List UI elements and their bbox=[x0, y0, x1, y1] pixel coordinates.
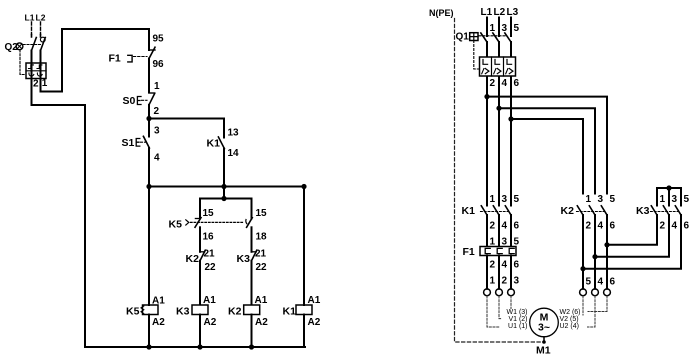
wire bus L2 to K2 terminal3 bbox=[499, 108, 595, 193]
svg-text:K5: K5 bbox=[126, 306, 140, 318]
cable core4 to U2 dashed bbox=[588, 296, 596, 327]
svg-text:V1 (2): V1 (2) bbox=[508, 316, 527, 323]
svg-text:K3: K3 bbox=[636, 205, 650, 217]
terminal 2 (K2) bbox=[586, 221, 592, 232]
terminal 6 (Q1) bbox=[514, 78, 520, 89]
terminal 3 (S1) bbox=[154, 126, 160, 137]
terminal 1 (K2) bbox=[586, 194, 592, 205]
svg-text:4: 4 bbox=[672, 221, 678, 232]
cable core1 to U1 dashed bbox=[487, 296, 500, 327]
wire phase L2 to K1 bbox=[498, 108, 500, 205]
pushbutton S0 1-2 (NC stop) bbox=[123, 93, 155, 119]
core 1 label bbox=[490, 276, 496, 287]
coil K2 bbox=[228, 305, 260, 318]
svg-text:L1: L1 bbox=[481, 7, 493, 18]
terminal 5 (K3) bbox=[684, 194, 690, 205]
terminal circle core5 bbox=[580, 289, 587, 296]
terminal 21 right bbox=[255, 249, 267, 260]
svg-text:A1: A1 bbox=[308, 295, 321, 306]
svg-text:4: 4 bbox=[502, 260, 508, 271]
wire K3 coil to rail bbox=[199, 315, 201, 348]
terminal 14 bbox=[228, 148, 240, 159]
cable core6 to W2 dashed bbox=[588, 296, 607, 312]
wire node2 branch to K1 aux bbox=[149, 119, 224, 138]
terminal 2 (S0) bbox=[154, 106, 160, 117]
node junction riser/split bbox=[221, 196, 226, 201]
cable core2 to V1 dashed bbox=[499, 296, 501, 319]
svg-text:2: 2 bbox=[490, 221, 496, 232]
terminal 4 (Q1) bbox=[502, 78, 508, 89]
wire bus to K5 coil bbox=[148, 187, 150, 306]
svg-text:4: 4 bbox=[154, 153, 160, 164]
terminal 21 left bbox=[204, 249, 216, 260]
svg-text:22: 22 bbox=[205, 262, 217, 273]
wire K2 drops to terminals bbox=[583, 245, 607, 289]
motor terminal U1(1) bbox=[508, 323, 527, 330]
terminal 3 (K3) bbox=[672, 194, 678, 205]
svg-text:5: 5 bbox=[514, 23, 520, 34]
terminal 1 (S0) bbox=[154, 81, 160, 92]
svg-text:22: 22 bbox=[256, 262, 268, 273]
svg-text:6: 6 bbox=[514, 221, 520, 232]
svg-text:3: 3 bbox=[514, 276, 520, 287]
terminal 2 (K1) bbox=[490, 221, 496, 232]
svg-text:4: 4 bbox=[502, 78, 508, 89]
svg-text:6: 6 bbox=[610, 277, 616, 288]
wire L3 drop bbox=[510, 18, 512, 37]
svg-text:4: 4 bbox=[598, 277, 604, 288]
svg-text:K3: K3 bbox=[176, 306, 190, 318]
core 4 label bbox=[598, 277, 604, 288]
node junction K3/rail bbox=[197, 344, 202, 349]
terminal circle core2 bbox=[496, 289, 503, 296]
terminal 6 (F1) bbox=[514, 260, 520, 271]
terminal 4 (F1) bbox=[502, 260, 508, 271]
terminal 1 (Q1) bbox=[490, 23, 496, 34]
overload relay F1 bbox=[463, 246, 517, 289]
svg-text:1: 1 bbox=[490, 276, 496, 287]
motor terminal V2(5) bbox=[560, 316, 579, 323]
svg-text:F1: F1 bbox=[109, 53, 121, 65]
node junction K2-4 bbox=[592, 254, 597, 259]
wire K2 pole1 down bbox=[582, 215, 584, 269]
wire K5 split bar bbox=[200, 198, 252, 200]
svg-text:14: 14 bbox=[228, 148, 240, 159]
svg-text:4: 4 bbox=[502, 221, 508, 232]
wire L2 feeder dashed bbox=[40, 22, 42, 35]
svg-text:M1: M1 bbox=[536, 345, 551, 357]
terminal A1 (K5) bbox=[152, 296, 165, 307]
contact K5 15-16 (timed opening) bbox=[195, 199, 201, 252]
node junction K2/rail bbox=[249, 344, 254, 349]
svg-text:3: 3 bbox=[672, 194, 678, 205]
wire L1 feeder dashed bbox=[31, 22, 33, 35]
svg-text:F1: F1 bbox=[463, 246, 475, 258]
svg-text:K5: K5 bbox=[169, 219, 183, 231]
breaker Q1 trip box bbox=[480, 57, 516, 76]
svg-text:W2 (6): W2 (6) bbox=[560, 309, 581, 316]
contact K5 15-18 (timed closing) bbox=[246, 199, 252, 252]
terminal A2 (K2) bbox=[255, 317, 268, 328]
svg-text:K1: K1 bbox=[283, 306, 297, 318]
motor terminal U2(4) bbox=[560, 323, 579, 330]
svg-text:3: 3 bbox=[502, 194, 508, 205]
terminal 6 (K1) bbox=[514, 221, 520, 232]
terminal 2 (Q2) bbox=[33, 79, 39, 90]
contact K1 13-14 (NO aux, seal-in) bbox=[207, 137, 225, 187]
motor terminal W1(3) bbox=[507, 309, 528, 316]
node junction bridge bbox=[666, 185, 671, 190]
svg-text:95: 95 bbox=[153, 34, 165, 45]
svg-text:2: 2 bbox=[490, 78, 496, 89]
contact K3 21-22 (NC interlock) bbox=[237, 250, 257, 305]
svg-text:A1: A1 bbox=[255, 295, 268, 306]
wire phase L1 to K1 bbox=[486, 97, 488, 206]
contactor K3 (star) bbox=[636, 205, 681, 217]
node junction K5/rail bbox=[146, 344, 151, 349]
terminal 22 right bbox=[256, 262, 268, 273]
svg-text:2: 2 bbox=[502, 276, 508, 287]
contactor K1 (main) bbox=[462, 205, 512, 247]
core 6 label bbox=[610, 277, 616, 288]
svg-text:4: 4 bbox=[598, 221, 604, 232]
wire bus L3 to K2 terminal1 bbox=[511, 119, 583, 194]
svg-text:2: 2 bbox=[660, 221, 666, 232]
svg-text:K2: K2 bbox=[228, 306, 242, 318]
terminal 95 bbox=[153, 34, 165, 45]
terminal 4 (S1) bbox=[154, 153, 160, 164]
node L3 (power) bbox=[507, 7, 519, 18]
breaker Q2 bbox=[5, 35, 46, 75]
terminal 2 (Q1) bbox=[490, 78, 496, 89]
terminal 3 (Q1) bbox=[502, 23, 508, 34]
svg-text:K1: K1 bbox=[207, 138, 221, 150]
svg-text:L2: L2 bbox=[36, 13, 46, 23]
svg-text:A1: A1 bbox=[203, 295, 216, 306]
contact K2 21-22 (NC interlock) bbox=[186, 250, 206, 305]
node junction K1coil/bus bbox=[301, 184, 306, 189]
terminal 13 bbox=[228, 128, 240, 139]
terminal 18 bbox=[256, 232, 268, 243]
pushbutton S1 3-4 (NO start) bbox=[122, 136, 150, 186]
terminal 15 left bbox=[203, 208, 215, 219]
breaker Q2 trip box bbox=[26, 63, 46, 79]
svg-text:6: 6 bbox=[684, 221, 690, 232]
terminal A2 (K3) bbox=[204, 317, 217, 328]
terminal 1 (K3) bbox=[660, 194, 666, 205]
svg-text:Q1: Q1 bbox=[456, 32, 470, 43]
svg-text:15: 15 bbox=[203, 208, 215, 219]
wire K2 coil to rail bbox=[251, 315, 253, 348]
wire K3 pole3 to K2 pole1 bbox=[583, 215, 681, 269]
svg-text:6: 6 bbox=[514, 78, 520, 89]
wire K1 coil column bbox=[303, 187, 305, 348]
node N(PE) label bbox=[429, 8, 454, 18]
wire bottom rail (control) bbox=[85, 346, 305, 348]
terminal 15 right bbox=[256, 208, 268, 219]
terminal 3 (K2) bbox=[598, 194, 604, 205]
contactor K2 (delta) bbox=[561, 205, 608, 217]
node M1 label bbox=[536, 345, 551, 357]
wire K2 pole2 down bbox=[594, 215, 596, 257]
terminal 3 (K1) bbox=[502, 194, 508, 205]
terminal A1 (K1) bbox=[308, 295, 321, 306]
svg-text:5: 5 bbox=[610, 194, 616, 205]
terminal 5 (K2) bbox=[610, 194, 616, 205]
terminal 5 (Q1) bbox=[514, 23, 520, 34]
svg-text:N(PE): N(PE) bbox=[429, 8, 454, 18]
wire Q2 pole2 to left rail bbox=[32, 51, 86, 348]
coil K3 bbox=[176, 305, 208, 318]
svg-text:1: 1 bbox=[660, 194, 666, 205]
svg-text:1: 1 bbox=[586, 194, 592, 205]
cable core3 to W1 dashed bbox=[510, 296, 512, 309]
terminal 16 bbox=[203, 232, 215, 243]
svg-text:L1: L1 bbox=[25, 13, 35, 23]
wire bus L1 to K2 terminal5 bbox=[487, 97, 607, 194]
svg-text:L3: L3 bbox=[507, 7, 519, 18]
svg-text:U2 (4): U2 (4) bbox=[560, 323, 579, 330]
wire N(PE) dashed bbox=[455, 19, 545, 343]
relay K5 label and linkage bbox=[169, 219, 245, 231]
svg-text:K2: K2 bbox=[561, 205, 575, 217]
terminal 5 (K1) bbox=[514, 194, 520, 205]
svg-text:K2: K2 bbox=[186, 253, 200, 265]
terminal A1 (K3) bbox=[203, 295, 216, 306]
svg-text:2: 2 bbox=[154, 106, 160, 117]
svg-text:K1: K1 bbox=[462, 205, 476, 217]
svg-text:18: 18 bbox=[256, 232, 268, 243]
wire L2 drop bbox=[498, 18, 500, 37]
wire K5 coil to rail bbox=[148, 315, 150, 348]
terminal 4 (K3) bbox=[672, 221, 678, 232]
terminal 3 (F1) bbox=[502, 237, 508, 248]
svg-text:W1 (3): W1 (3) bbox=[507, 309, 528, 316]
terminal 6 (K3) bbox=[684, 221, 690, 232]
node L2 (control feed label) bbox=[36, 13, 46, 23]
wire K5 changeover riser bbox=[223, 187, 225, 199]
wire L1 drop bbox=[486, 18, 488, 37]
wire motor PE stub bbox=[543, 337, 545, 342]
svg-text:S1: S1 bbox=[122, 137, 135, 149]
motor terminal W2(6) bbox=[560, 309, 581, 316]
wire phase L3 to K1 bbox=[510, 119, 512, 206]
breaker Q1 bbox=[456, 32, 512, 120]
svg-text:1: 1 bbox=[490, 194, 496, 205]
svg-text:A1: A1 bbox=[152, 296, 165, 307]
svg-text:5: 5 bbox=[684, 194, 690, 205]
svg-text:1: 1 bbox=[154, 81, 160, 92]
terminal circle core3 bbox=[508, 289, 515, 296]
terminal 5 (F1) bbox=[514, 237, 520, 248]
node L1 (control feed label) bbox=[25, 13, 35, 23]
terminal A2 (K5) bbox=[152, 317, 165, 328]
core 2 label bbox=[502, 276, 508, 287]
node L1 (power) bbox=[481, 7, 493, 18]
svg-text:3: 3 bbox=[154, 126, 160, 137]
motor terminal V1(2) bbox=[508, 316, 527, 323]
svg-text:96: 96 bbox=[153, 59, 165, 70]
node junction L3/bus bbox=[508, 116, 513, 121]
wire node2 down to S1 bbox=[148, 119, 150, 137]
svg-text:U1 (1): U1 (1) bbox=[508, 323, 527, 330]
terminal circle core1 bbox=[484, 289, 491, 296]
terminal A1 (K2) bbox=[255, 295, 268, 306]
svg-text:S0: S0 bbox=[123, 95, 136, 107]
svg-text:5: 5 bbox=[586, 277, 592, 288]
svg-text:5: 5 bbox=[514, 194, 520, 205]
node junction motor/PE bbox=[542, 340, 546, 344]
node junction S1/bus bbox=[146, 184, 151, 189]
svg-text:K3: K3 bbox=[237, 253, 251, 265]
terminal 4 (K1) bbox=[502, 221, 508, 232]
wire star bridge K3 bbox=[657, 188, 681, 206]
core 3 label bbox=[514, 276, 520, 287]
wire K3 pole1 to K2 pole3 bbox=[607, 215, 657, 245]
wire lower bus bbox=[149, 186, 304, 188]
svg-text:13: 13 bbox=[228, 128, 240, 139]
terminal 2 (K3) bbox=[660, 221, 666, 232]
coil K1 bbox=[283, 305, 313, 318]
svg-text:2: 2 bbox=[490, 260, 496, 271]
terminal 6 (K2) bbox=[610, 221, 616, 232]
node junction L1/bus bbox=[484, 94, 489, 99]
svg-text:A2: A2 bbox=[308, 317, 321, 328]
terminal 1 (F1) bbox=[490, 237, 496, 248]
terminal 1 (K1) bbox=[490, 194, 496, 205]
core 5 label bbox=[586, 277, 592, 288]
svg-text:3~: 3~ bbox=[538, 322, 550, 334]
svg-text:2: 2 bbox=[586, 221, 592, 232]
terminal 1 (Q2) bbox=[42, 78, 48, 89]
node junction L2/bus bbox=[496, 106, 501, 111]
motor M1 bbox=[530, 308, 559, 337]
contact F1 95-96 (NC overload) bbox=[109, 29, 156, 93]
wire K2 pole3 down bbox=[606, 215, 608, 245]
coil K5 (timer) bbox=[126, 305, 158, 318]
svg-text:1: 1 bbox=[42, 78, 48, 89]
svg-text:3: 3 bbox=[598, 194, 604, 205]
node L2 (power) bbox=[494, 7, 506, 18]
svg-text:L2: L2 bbox=[494, 7, 506, 18]
svg-text:A2: A2 bbox=[204, 317, 217, 328]
terminal circle core4 bbox=[592, 289, 599, 296]
cable core5 to V2 dashed bbox=[582, 296, 584, 315]
terminal 22 left bbox=[205, 262, 217, 273]
node junction K2-2 bbox=[580, 266, 585, 271]
terminal 2 (F1) bbox=[490, 260, 496, 271]
terminal A2 (K1) bbox=[308, 317, 321, 328]
node junction K1aux/bus bbox=[221, 184, 226, 189]
node 2 junction bbox=[146, 116, 151, 121]
svg-text:15: 15 bbox=[256, 208, 268, 219]
svg-text:6: 6 bbox=[514, 260, 520, 271]
svg-text:A2: A2 bbox=[152, 317, 165, 328]
svg-text:16: 16 bbox=[203, 232, 215, 243]
node junction K2-6 bbox=[604, 242, 609, 247]
wire K3 pole2 to K2 pole2 bbox=[595, 215, 669, 257]
terminal circle core6 bbox=[604, 289, 611, 296]
terminal 96 bbox=[153, 59, 165, 70]
svg-text:V2 (5): V2 (5) bbox=[560, 316, 579, 323]
wire Q2 pole1 to F1 top bbox=[41, 29, 150, 92]
svg-text:2: 2 bbox=[33, 79, 39, 90]
svg-text:A2: A2 bbox=[255, 317, 268, 328]
terminal 4 (K2) bbox=[598, 221, 604, 232]
svg-text:6: 6 bbox=[610, 221, 616, 232]
